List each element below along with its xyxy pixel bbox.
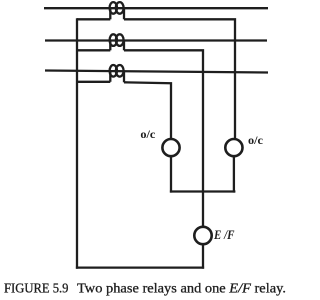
wire: phase line L3: [45, 71, 268, 73]
wire: CT1 right lead down to right o/c relay: [124, 19, 235, 139]
wire: phase line L1: [44, 7, 268, 9]
svg-text:FIGURE 5.9: FIGURE 5.9: [4, 280, 69, 295]
svg-text:o/c: o/c: [140, 127, 156, 141]
CT2 secondary stub right: [123, 41, 125, 50]
wire: CT2 left lead to common conductor: [77, 49, 110, 51]
wire: common return vertical (left): [76, 18, 78, 269]
wire: right o/c relay to bus: [233, 156, 235, 192]
CT1 current transformer loops on L1: [110, 2, 124, 14]
wire: CT3 left lead to common conductor: [77, 81, 110, 83]
CT1 secondary stub left: [109, 9, 111, 19]
CT1 secondary stub right: [123, 9, 125, 19]
svg-text:Two phase relays and one E/F r: Two phase relays and one E/F relay.: [77, 280, 286, 295]
svg-text:E /F: E /F: [213, 228, 235, 242]
wire: common return bottom run: [76, 266, 204, 268]
CT3 current transformer loops on L3: [110, 65, 124, 77]
E/F relay (earth fault): [194, 227, 211, 244]
wire: CT1 left lead to common conductor: [77, 18, 110, 20]
wire: relay common bus: [170, 190, 236, 192]
o/c relay left (phase relay): [162, 139, 179, 156]
wire: CT2 right lead down to E/F branch: [124, 50, 203, 227]
CT2 secondary stub left: [109, 41, 111, 50]
CT3 secondary stub left: [109, 72, 111, 82]
CT2 current transformer loops on L2: [110, 34, 124, 46]
wire: CT3 right lead down to left o/c relay: [124, 82, 171, 139]
svg-text:o/c: o/c: [248, 133, 264, 147]
wire: left o/c relay to bus: [170, 156, 172, 192]
wire: E/F relay to bottom return: [202, 244, 204, 268]
CT3 secondary stub right: [123, 72, 125, 82]
o/c relay right (phase relay): [225, 139, 242, 156]
wire: phase line L2: [45, 39, 267, 41]
